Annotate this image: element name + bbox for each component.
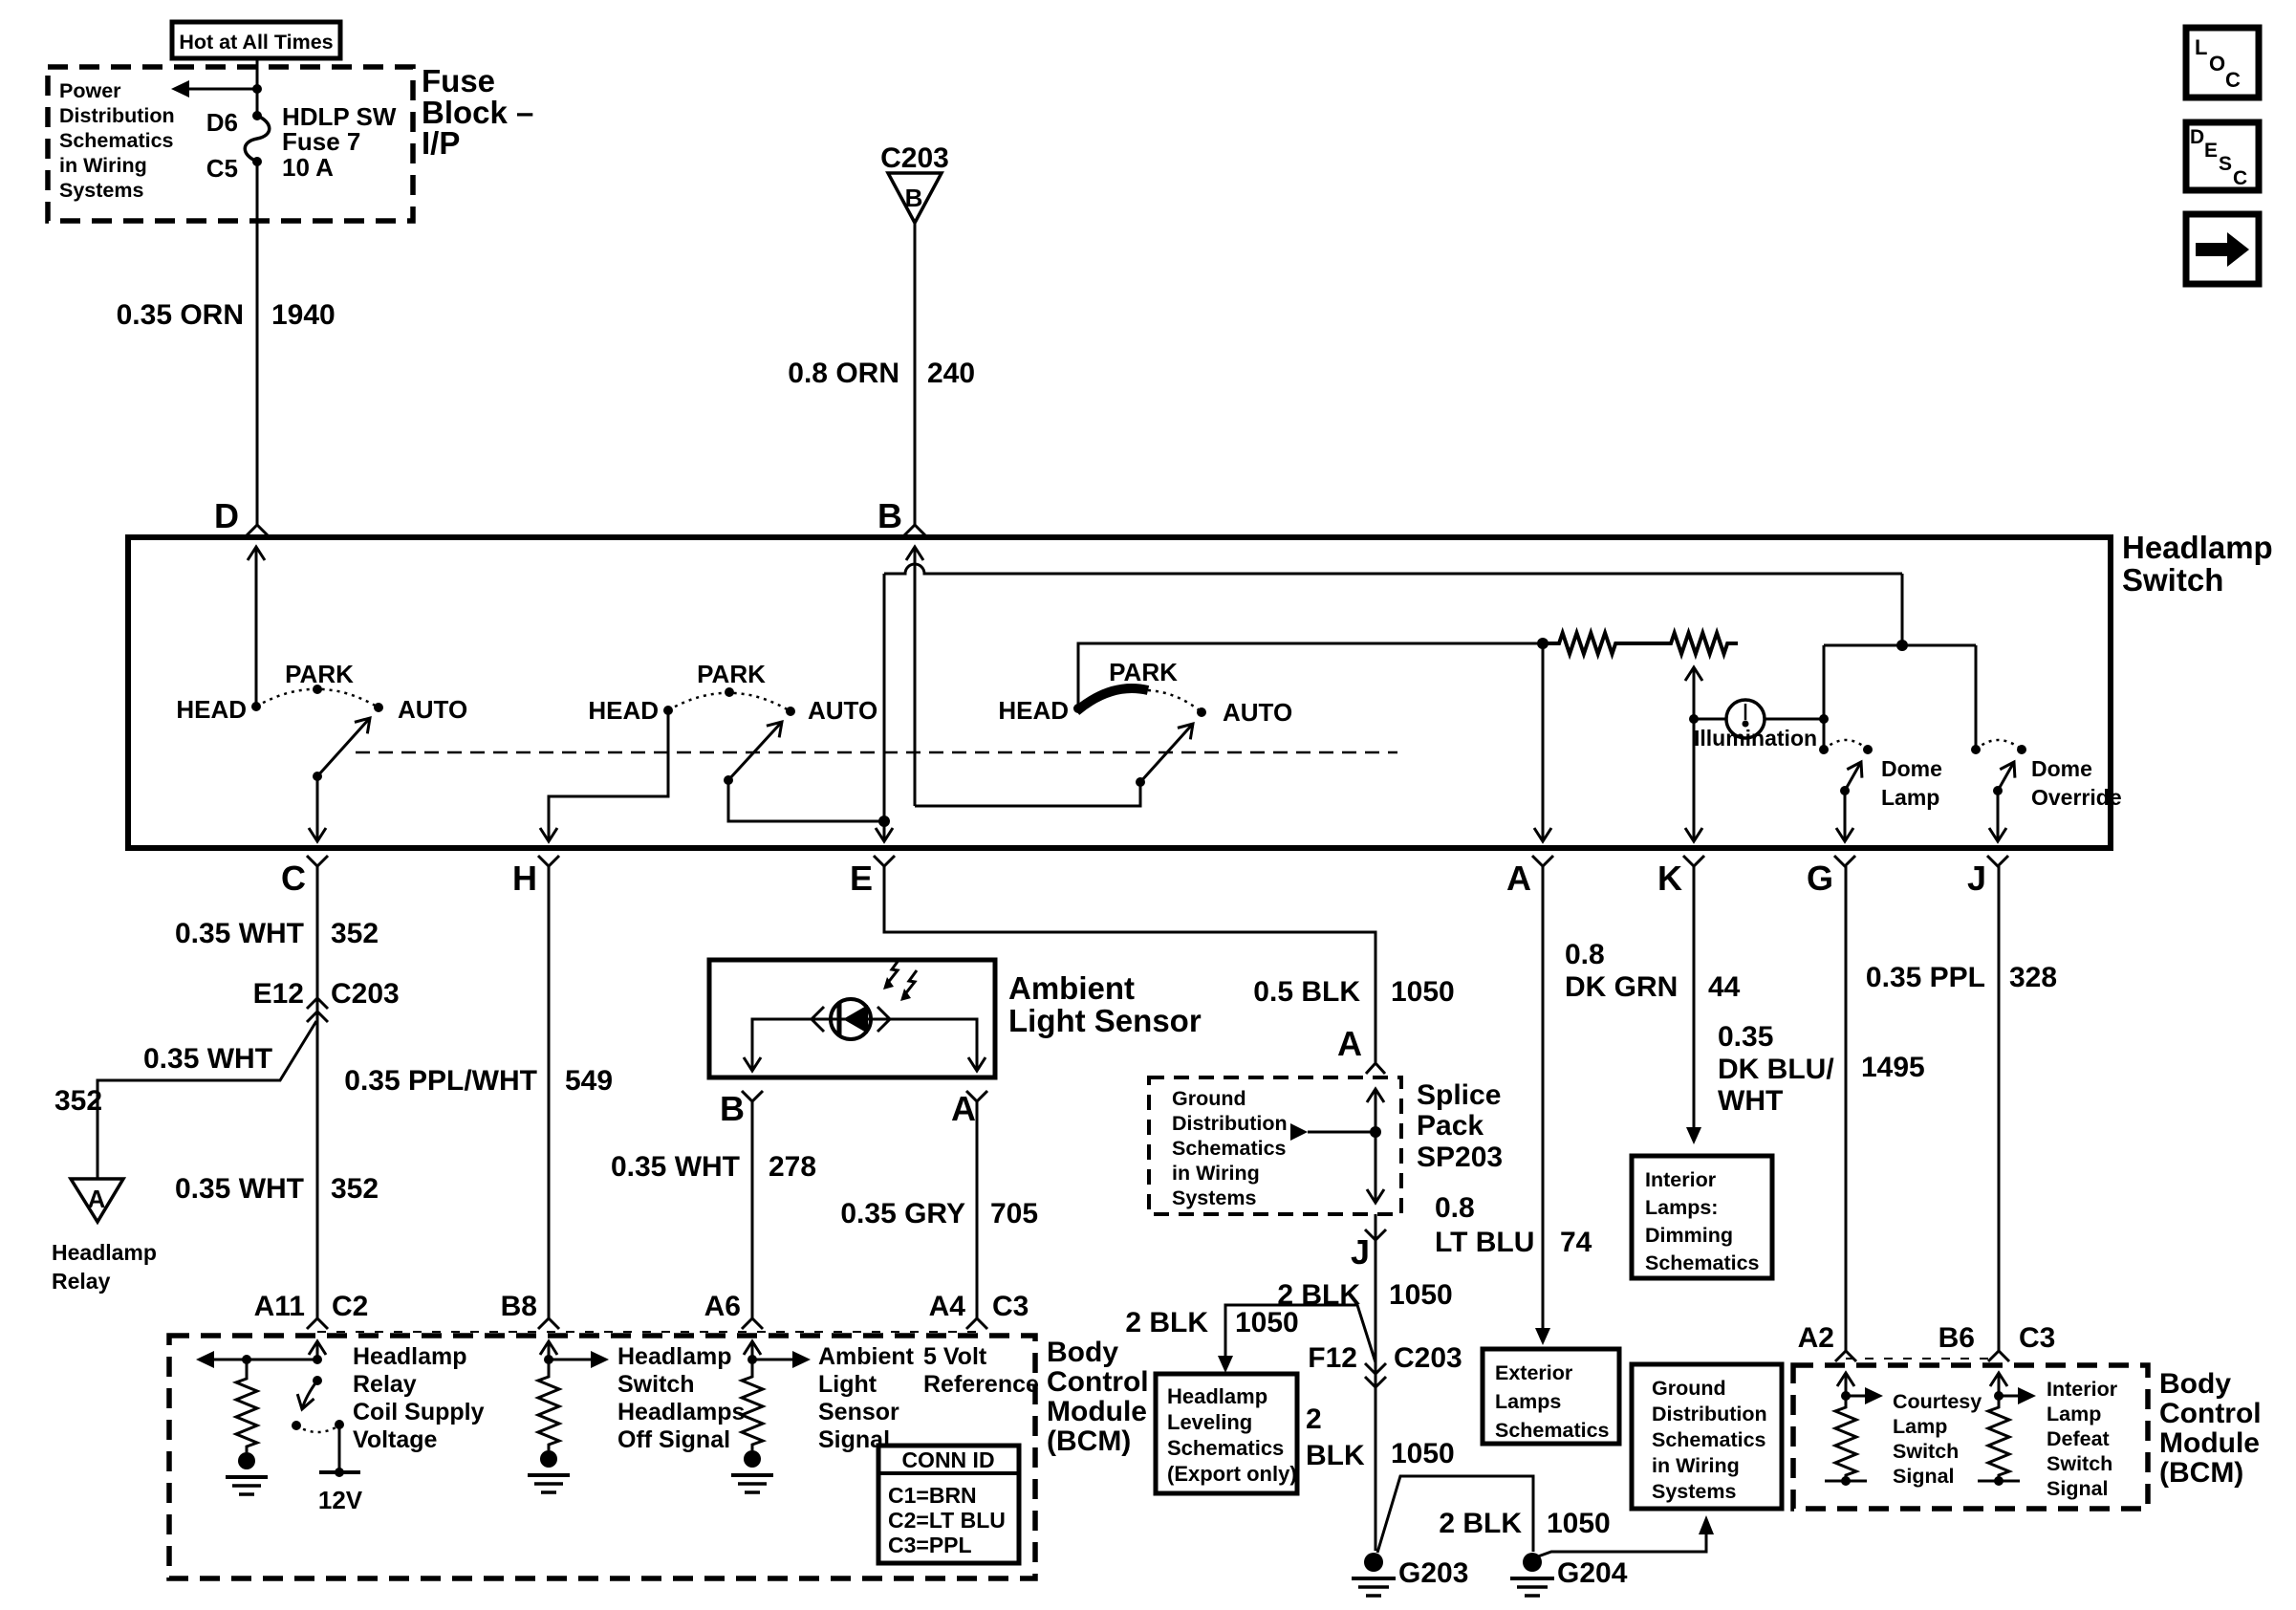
box Exterior Lamps Schematics	[1483, 1349, 1619, 1444]
wire arrow to power distribution	[189, 88, 257, 91]
svg-text:Control: Control	[2159, 1398, 2262, 1429]
svg-text:Schematics: Schematics	[59, 129, 174, 152]
svg-text:Module: Module	[1047, 1396, 1147, 1427]
wire H circuit 549	[548, 866, 551, 1318]
svg-text:0.35 WHT: 0.35 WHT	[175, 918, 304, 949]
svg-text:Lamp: Lamp	[1881, 785, 1939, 810]
svg-text:PARK: PARK	[697, 660, 766, 688]
svg-text:0.8 ORN: 0.8 ORN	[788, 358, 899, 389]
svg-text:C: C	[2225, 68, 2241, 92]
wire 0.8 ORN 240	[914, 223, 917, 525]
icon LOC	[2186, 28, 2259, 98]
svg-text:in Wiring: in Wiring	[1652, 1454, 1740, 1477]
switch 3 wiper arm	[1136, 777, 1145, 787]
svg-text:0.35 WHT: 0.35 WHT	[143, 1043, 272, 1075]
svg-text:0.35: 0.35	[1718, 1021, 1773, 1053]
svg-text:Voltage: Voltage	[353, 1426, 438, 1453]
switch 3 position arc thick HEAD-PARK	[1076, 688, 1148, 711]
box Headlamp Leveling Schematics	[1156, 1374, 1297, 1493]
svg-text:0.8: 0.8	[1435, 1192, 1475, 1224]
svg-text:2: 2	[1306, 1403, 1322, 1435]
svg-text:F12: F12	[1308, 1342, 1357, 1374]
svg-text:C: C	[281, 859, 306, 898]
svg-text:Schematics: Schematics	[1645, 1251, 1760, 1274]
BCM left dashed box	[169, 1336, 1035, 1578]
svg-text:278: 278	[769, 1151, 816, 1183]
svg-text:1495: 1495	[1861, 1052, 1925, 1083]
wire dome override drop	[1975, 645, 1978, 750]
label Hot at All Times	[172, 22, 340, 58]
svg-text:Sensor: Sensor	[818, 1399, 899, 1425]
svg-text:Dome: Dome	[2031, 756, 2092, 781]
svg-text:HEAD: HEAD	[588, 696, 659, 725]
wire G203 to G204 circuit 1050	[1377, 1476, 1533, 1553]
svg-text:0.35 WHT: 0.35 WHT	[175, 1173, 304, 1205]
svg-text:Off Signal: Off Signal	[617, 1426, 730, 1453]
svg-text:10 A: 10 A	[282, 153, 334, 182]
box Interior Lamps Dimming Schematics	[1632, 1156, 1772, 1278]
svg-text:Reference: Reference	[923, 1371, 1039, 1398]
ground G203	[1364, 1553, 1383, 1572]
svg-text:0.8: 0.8	[1565, 939, 1605, 970]
node illumination to dome lamp feed	[1819, 714, 1829, 724]
svg-text:K: K	[1657, 859, 1682, 898]
svg-text:Switch: Switch	[2047, 1452, 2112, 1475]
svg-text:Body: Body	[1047, 1337, 1118, 1368]
switch 3 dashed arc PARK-AUTO	[1148, 690, 1202, 712]
svg-text:Switch: Switch	[1893, 1440, 1959, 1463]
svg-text:Fuse: Fuse	[422, 63, 495, 98]
svg-text:352: 352	[331, 918, 379, 949]
svg-text:Lamp: Lamp	[1893, 1415, 1947, 1438]
svg-text:DK BLU/: DK BLU/	[1718, 1054, 1834, 1085]
wire C circuit 352	[316, 866, 319, 1318]
svg-text:G203: G203	[1398, 1557, 1468, 1589]
wire branch to headlamp leveling	[1225, 1305, 1375, 1362]
svg-text:A: A	[1337, 1024, 1362, 1063]
svg-text:Headlamp: Headlamp	[52, 1240, 157, 1265]
svg-text:Headlamp: Headlamp	[617, 1343, 731, 1370]
svg-text:(Export only): (Export only)	[1167, 1462, 1297, 1486]
resistor to ground	[538, 1360, 559, 1450]
switch 1 wiper arm	[313, 772, 322, 781]
svg-text:Leveling: Leveling	[1167, 1410, 1252, 1434]
BCM A11 input	[316, 1341, 319, 1360]
svg-text:352: 352	[331, 1173, 379, 1205]
svg-text:1940: 1940	[271, 299, 336, 331]
svg-text:C3=PPL: C3=PPL	[888, 1533, 972, 1557]
svg-text:1050: 1050	[1389, 1279, 1453, 1311]
wire wiper to connector K	[1693, 711, 1696, 841]
svg-text:H: H	[512, 859, 537, 898]
wire dome feed riser	[1823, 645, 1826, 750]
svg-text:J: J	[1967, 859, 1986, 898]
node junction at power feed	[252, 84, 262, 94]
svg-text:C3: C3	[2019, 1322, 2055, 1354]
box Ground Distribution Schematics	[1632, 1364, 1782, 1509]
svg-text:44: 44	[1708, 971, 1741, 1003]
svg-text:AUTO: AUTO	[808, 696, 877, 725]
wire top rail with hop over B wire	[884, 564, 1902, 574]
switch arm to 12V	[313, 1376, 322, 1385]
svg-text:A: A	[88, 1185, 106, 1213]
ground ball	[238, 1452, 255, 1469]
wire node E riser to top rail	[883, 574, 886, 821]
svg-text:705: 705	[990, 1198, 1038, 1229]
svg-text:Defeat: Defeat	[2047, 1427, 2110, 1450]
svg-text:C203: C203	[1394, 1342, 1462, 1374]
svg-text:1050: 1050	[1547, 1508, 1611, 1539]
svg-text:A4: A4	[929, 1291, 966, 1322]
svg-text:Relay: Relay	[353, 1371, 417, 1398]
svg-text:2 BLK: 2 BLK	[1125, 1307, 1208, 1338]
fuse block dashed box	[48, 67, 413, 221]
resistor junction node	[1537, 638, 1549, 649]
svg-text:0.5 BLK: 0.5 BLK	[1253, 976, 1360, 1008]
svg-text:Distribution: Distribution	[1172, 1112, 1288, 1135]
thin connector line right BCM	[1846, 1358, 1999, 1360]
svg-text:Switch: Switch	[617, 1371, 695, 1398]
switch Dome Lamp	[1819, 745, 1829, 754]
svg-text:A6: A6	[704, 1291, 741, 1322]
svg-text:G204: G204	[1557, 1557, 1628, 1589]
wire switch1 wiper to C	[316, 776, 319, 841]
svg-text:DK GRN: DK GRN	[1565, 971, 1678, 1003]
svg-text:Systems: Systems	[59, 179, 143, 202]
wire node to connector A	[1542, 643, 1545, 841]
lamp Illumination	[1694, 718, 1726, 721]
svg-text:SP203: SP203	[1417, 1142, 1503, 1173]
wire G circuit 1495	[1845, 866, 1848, 1351]
svg-text:Relay: Relay	[52, 1269, 111, 1294]
svg-text:WHT: WHT	[1718, 1085, 1783, 1117]
icon DESC	[2186, 122, 2259, 190]
headlamp switch box	[128, 537, 2111, 848]
icon arrow	[2186, 214, 2259, 284]
svg-text:Lamp: Lamp	[2047, 1403, 2101, 1425]
svg-text:E12: E12	[253, 978, 304, 1010]
switch Dome Override	[1971, 745, 1981, 754]
node E junction	[878, 816, 890, 827]
svg-text:1050: 1050	[1235, 1307, 1299, 1338]
wire A circuit 44 to exterior lamps	[1542, 866, 1545, 1328]
svg-text:D6: D6	[206, 108, 238, 137]
fuse F7 HDLP SW 10A	[252, 111, 262, 120]
svg-text:(BCM): (BCM)	[1047, 1425, 1131, 1457]
wire branch to headlamp relay	[97, 1021, 316, 1179]
svg-text:Ground: Ground	[1652, 1377, 1726, 1400]
svg-text:Signal: Signal	[1893, 1465, 1955, 1488]
svg-text:D: D	[2190, 126, 2204, 148]
svg-text:C3: C3	[992, 1291, 1029, 1322]
svg-text:Override: Override	[2031, 785, 2122, 810]
splice bus wire	[1370, 1126, 1381, 1138]
photodiode	[831, 999, 871, 1039]
wire K to interior lamps dimming	[1693, 866, 1696, 1127]
svg-text:in Wiring: in Wiring	[1172, 1162, 1260, 1185]
svg-text:Light: Light	[818, 1371, 877, 1398]
wire E circuit 1050 to splice pack	[884, 866, 1375, 1062]
svg-text:Headlamp: Headlamp	[2122, 530, 2273, 565]
svg-text:E: E	[2204, 140, 2218, 162]
svg-text:5 Volt: 5 Volt	[923, 1343, 987, 1370]
svg-text:Switch: Switch	[2122, 562, 2223, 598]
wire from Hot at All Times down to fuse	[256, 58, 259, 116]
wire 0.35 ORN 1940	[256, 162, 259, 525]
svg-text:Signal: Signal	[2047, 1477, 2109, 1500]
svg-text:Headlamp: Headlamp	[1167, 1384, 1267, 1408]
svg-text:in Wiring: in Wiring	[59, 154, 147, 177]
BCM B6 input	[1998, 1373, 2001, 1396]
svg-text:Schematics: Schematics	[1652, 1428, 1766, 1451]
svg-text:0.35 PPL/WHT: 0.35 PPL/WHT	[344, 1065, 537, 1097]
svg-text:I/P: I/P	[422, 125, 460, 161]
svg-text:Pack: Pack	[1417, 1110, 1484, 1142]
svg-text:Lamps: Lamps	[1495, 1390, 1561, 1413]
svg-text:240: 240	[927, 358, 975, 389]
svg-text:Coil Supply: Coil Supply	[353, 1399, 485, 1425]
BCM right dashed box	[1793, 1365, 2148, 1509]
svg-text:C203: C203	[880, 142, 949, 174]
svg-text:Distribution: Distribution	[59, 104, 175, 127]
svg-text:0.35 WHT: 0.35 WHT	[611, 1151, 740, 1183]
node on wiper wire	[1689, 714, 1699, 724]
svg-text:E: E	[850, 859, 873, 898]
svg-text:HEAD: HEAD	[176, 695, 247, 724]
svg-text:Schematics: Schematics	[1167, 1436, 1284, 1460]
svg-text:Interior: Interior	[2047, 1378, 2118, 1401]
svg-text:J: J	[1351, 1232, 1370, 1272]
svg-text:C2: C2	[332, 1291, 368, 1322]
svg-text:Illumination: Illumination	[1694, 726, 1817, 751]
svg-text:AUTO: AUTO	[398, 695, 467, 724]
BCM A6 input	[751, 1341, 754, 1360]
svg-text:74: 74	[1560, 1227, 1592, 1258]
svg-text:C2=LT BLU: C2=LT BLU	[888, 1508, 1006, 1533]
svg-text:PARK: PARK	[285, 660, 354, 688]
potentiometer wiper arrow	[1693, 667, 1696, 711]
switch 3 HEAD feed line	[1078, 643, 1543, 708]
svg-text:549: 549	[565, 1065, 613, 1097]
svg-text:B8: B8	[501, 1291, 537, 1322]
battery 12V	[319, 1470, 360, 1474]
svg-text:12V: 12V	[318, 1486, 363, 1514]
svg-text:Control: Control	[1047, 1366, 1149, 1398]
svg-text:G: G	[1807, 859, 1833, 898]
svg-text:C203: C203	[331, 978, 400, 1010]
svg-text:Lamps:: Lamps:	[1645, 1196, 1718, 1219]
svg-text:Headlamp: Headlamp	[353, 1343, 466, 1370]
svg-text:0.35 GRY: 0.35 GRY	[840, 1198, 965, 1229]
svg-text:Dome: Dome	[1881, 756, 1942, 781]
wire sensor B circuit 278	[751, 1101, 754, 1318]
svg-text:C1=BRN: C1=BRN	[888, 1483, 977, 1508]
wire dome feed rail	[1824, 644, 1976, 647]
svg-text:Headlamps: Headlamps	[617, 1399, 745, 1425]
svg-text:Distribution: Distribution	[1652, 1403, 1767, 1425]
svg-text:Ground: Ground	[1172, 1087, 1246, 1110]
wire node E down to connector E	[883, 821, 886, 841]
ambient light sensor box	[709, 960, 995, 1077]
svg-text:B: B	[720, 1089, 745, 1128]
wire D to switch 1 HEAD	[255, 547, 258, 707]
connector triangle A headlamp relay	[71, 1179, 123, 1222]
BCM A2 input	[1845, 1373, 1848, 1396]
svg-text:BLK: BLK	[1306, 1440, 1365, 1471]
svg-text:2 BLK: 2 BLK	[1439, 1508, 1522, 1539]
switch 2 wiper arm	[724, 775, 733, 785]
svg-text:D: D	[214, 496, 239, 535]
svg-text:Courtesy: Courtesy	[1893, 1390, 1982, 1413]
svg-text:A11: A11	[254, 1291, 305, 1322]
svg-text:CONN ID: CONN ID	[901, 1447, 994, 1472]
thin connector line left BCM	[317, 1331, 977, 1333]
resistor dimmer element	[1543, 633, 1738, 654]
svg-text:LT BLU: LT BLU	[1435, 1227, 1534, 1258]
svg-text:Fuse 7: Fuse 7	[282, 127, 360, 156]
ground G204	[1523, 1553, 1542, 1572]
wire J circuit 328	[1998, 866, 2001, 1351]
svg-text:PARK: PARK	[1109, 658, 1178, 686]
splice pack SP203 dashed box	[1149, 1077, 1401, 1214]
svg-text:A: A	[1506, 859, 1531, 898]
splice feed arrow from ground distribution	[1290, 1123, 1308, 1141]
wire top rail drop	[1901, 574, 1904, 645]
svg-text:Exterior: Exterior	[1495, 1361, 1573, 1384]
svg-text:S: S	[2219, 153, 2232, 175]
wire switch2 HEAD to H	[549, 710, 668, 841]
svg-text:1050: 1050	[1391, 976, 1455, 1008]
sensor internal wires	[752, 1019, 831, 1071]
wire sensor A circuit 705	[976, 1101, 979, 1318]
svg-text:0.35 ORN: 0.35 ORN	[117, 299, 244, 331]
svg-text:A2: A2	[1798, 1322, 1834, 1354]
svg-text:HEAD: HEAD	[998, 696, 1069, 725]
svg-text:Ambient: Ambient	[1008, 970, 1135, 1006]
svg-text:Hot at All Times: Hot at All Times	[179, 31, 333, 54]
svg-text:Dimming: Dimming	[1645, 1224, 1733, 1247]
svg-text:B6: B6	[1939, 1322, 1975, 1354]
svg-text:C: C	[2233, 167, 2247, 189]
svg-text:B: B	[877, 496, 902, 535]
svg-text:B: B	[905, 184, 923, 212]
svg-text:(BCM): (BCM)	[2159, 1457, 2243, 1489]
svg-text:Module: Module	[2159, 1427, 2260, 1459]
wire B into switch 3 wiper	[914, 547, 917, 806]
BCM B8 input	[548, 1341, 551, 1360]
svg-text:352: 352	[54, 1085, 102, 1117]
svg-text:O: O	[2209, 52, 2225, 76]
svg-text:Schematics: Schematics	[1172, 1137, 1287, 1160]
svg-text:Interior: Interior	[1645, 1168, 1717, 1191]
resistor to ground	[742, 1360, 763, 1450]
svg-text:0.35 PPL: 0.35 PPL	[1866, 962, 1985, 993]
table CONN ID	[878, 1446, 1019, 1563]
wire G204 to ground distribution box	[1538, 1534, 1706, 1556]
svg-text:328: 328	[2009, 962, 2057, 993]
resistor to ground	[236, 1360, 257, 1452]
light arrows into photodiode	[887, 959, 899, 984]
svg-text:L: L	[2195, 35, 2207, 59]
svg-text:1050: 1050	[1391, 1438, 1455, 1469]
svg-text:Splice: Splice	[1417, 1079, 1501, 1111]
svg-text:Body: Body	[2159, 1368, 2231, 1400]
svg-text:C5: C5	[206, 154, 238, 183]
wire J circuit 1050	[1375, 1214, 1377, 1551]
svg-text:Schematics: Schematics	[1495, 1419, 1610, 1442]
svg-text:Systems: Systems	[1652, 1480, 1736, 1503]
dashed gang line	[356, 751, 1397, 754]
svg-text:Light Sensor: Light Sensor	[1008, 1003, 1202, 1038]
svg-text:Ambient: Ambient	[818, 1343, 915, 1370]
svg-text:Systems: Systems	[1172, 1186, 1256, 1209]
svg-text:Power: Power	[59, 79, 121, 102]
svg-text:AUTO: AUTO	[1223, 698, 1292, 727]
wire switch2 wiper to node E	[728, 780, 884, 821]
